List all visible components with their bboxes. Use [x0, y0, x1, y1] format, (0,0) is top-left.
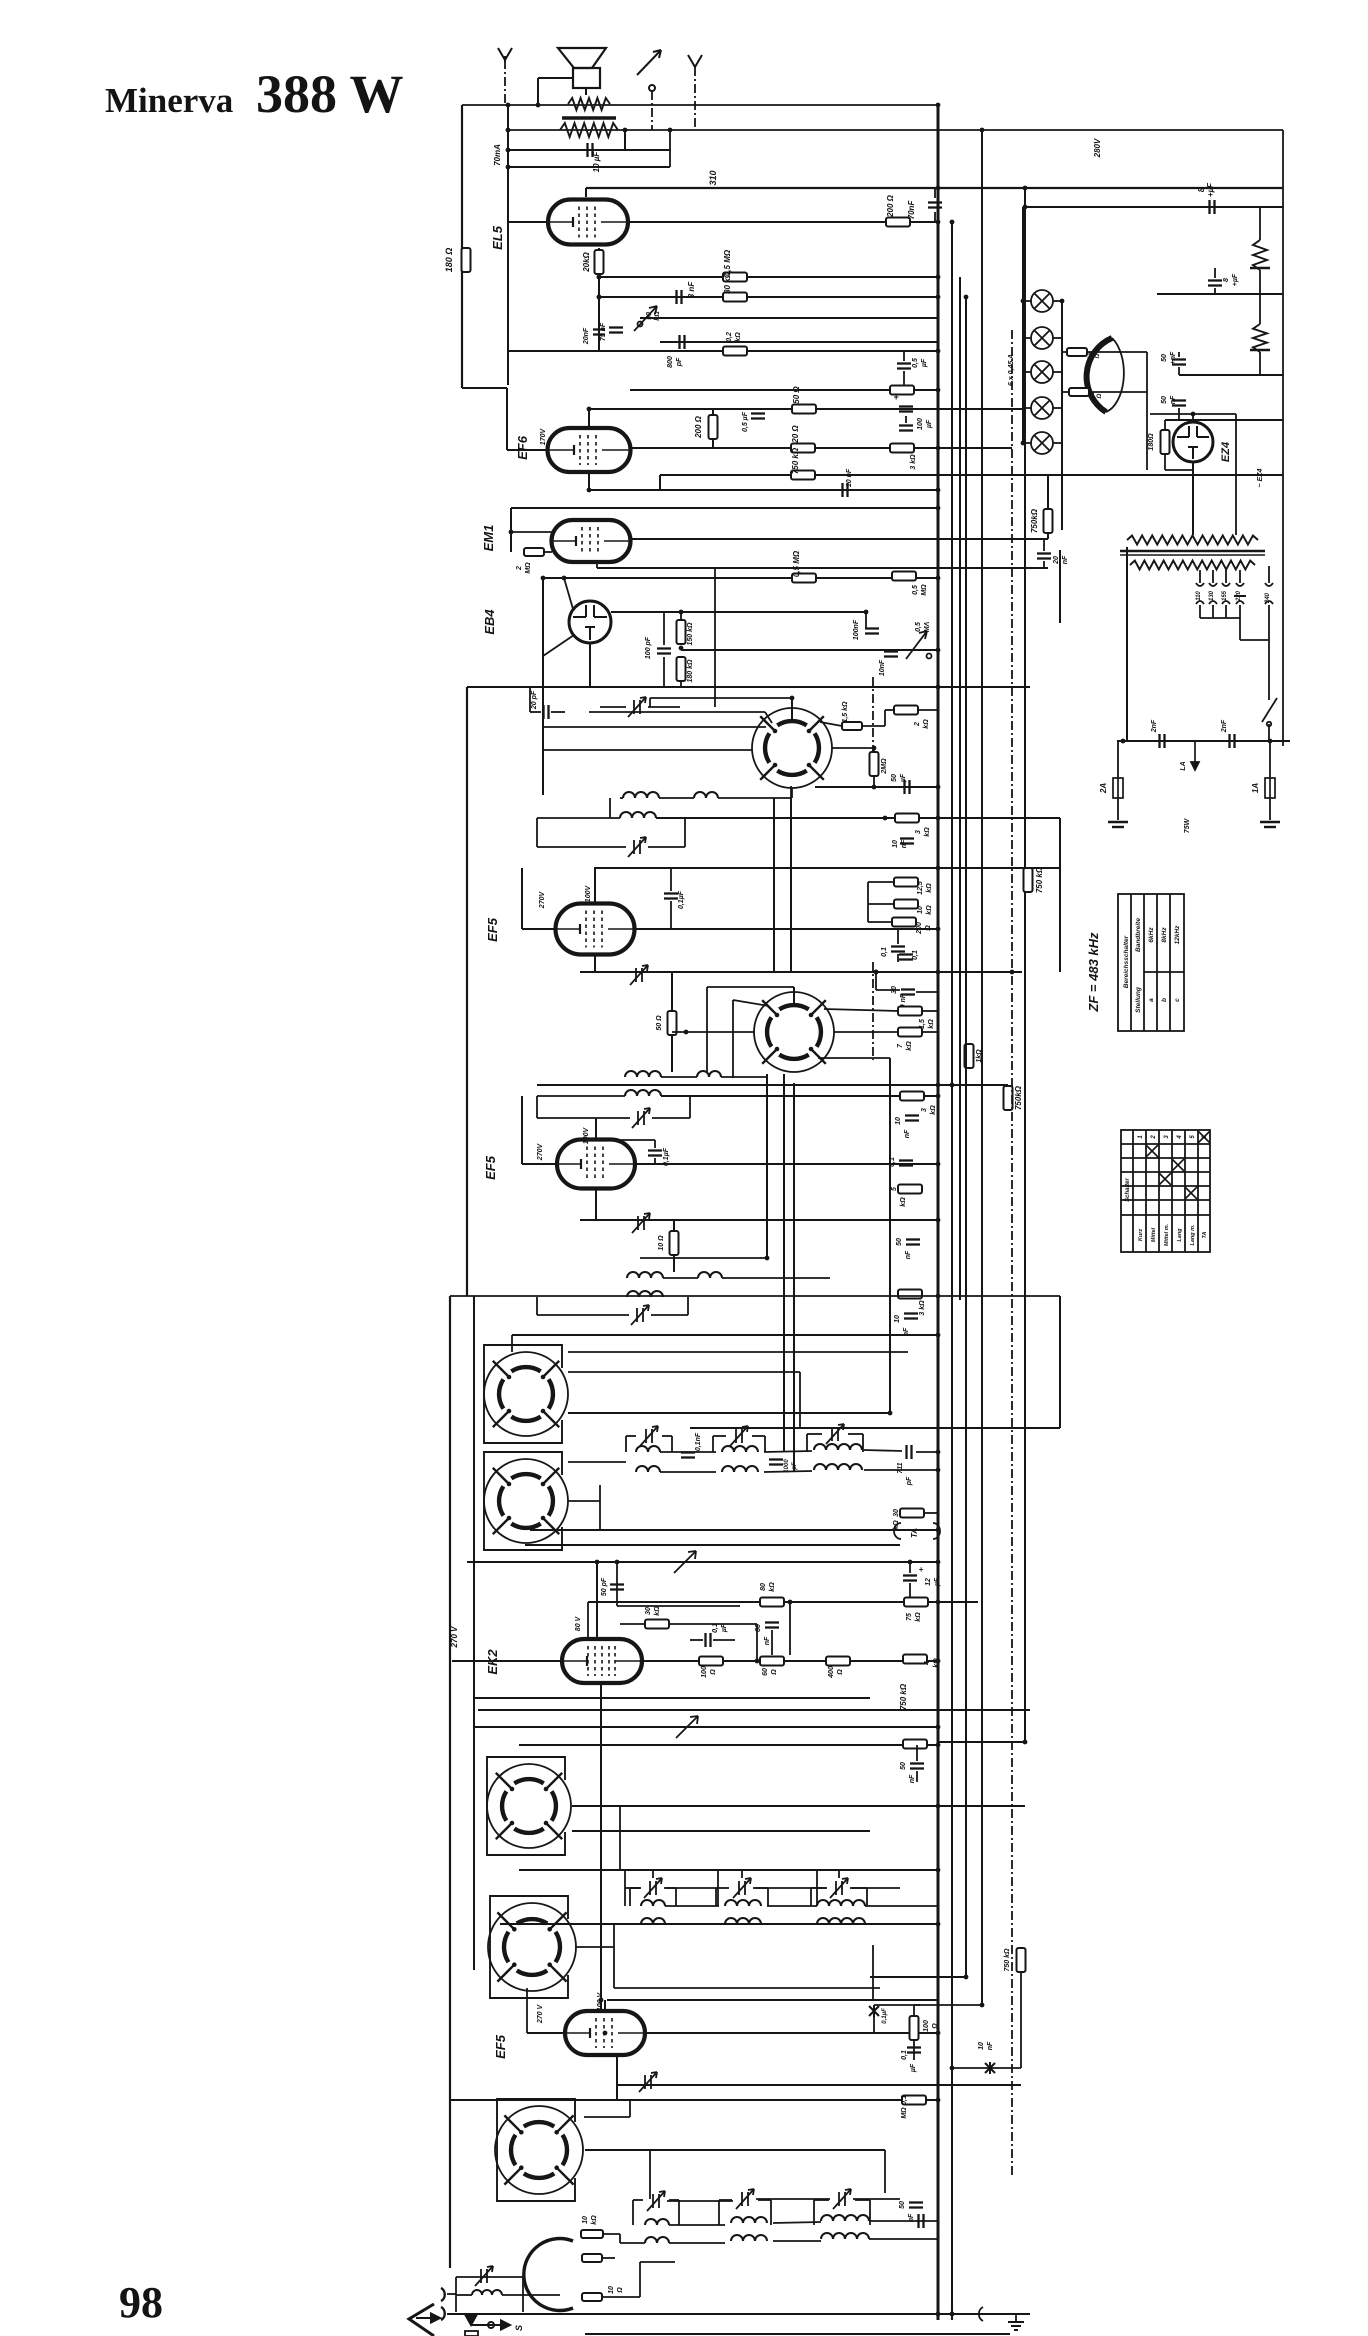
wire PS right border — [1282, 130, 1284, 746]
wire speaker bottom — [585, 88, 587, 95]
coil — [620, 812, 656, 818]
resistor 5 kOhm — [898, 1185, 922, 1194]
coil — [817, 1900, 865, 1906]
svg-text:LA: LA — [1180, 761, 1187, 770]
wire trimmer loop — [712, 1436, 714, 1452]
wire — [1129, 566, 1131, 620]
wire — [572, 1805, 1025, 1807]
svg-text:150 kΩ: 150 kΩ — [687, 622, 694, 646]
TA pickup jack — [894, 1523, 940, 1539]
wire — [718, 797, 791, 799]
wire — [1023, 442, 1031, 444]
wire — [707, 986, 794, 988]
wire — [594, 955, 596, 972]
wire — [502, 2294, 523, 2296]
wire — [873, 2005, 875, 2011]
wire — [660, 341, 938, 343]
wire — [617, 1605, 740, 1607]
wire — [716, 1887, 729, 1889]
wire — [1053, 407, 1062, 409]
wire — [640, 317, 938, 319]
tuning gang section 1 — [484, 1345, 568, 1443]
wire — [602, 2296, 640, 2298]
wire — [712, 409, 714, 448]
wire — [1053, 371, 1062, 373]
wire bus 8 — [1059, 818, 1061, 972]
wire — [897, 954, 899, 962]
svg-text:100V: 100V — [585, 885, 592, 903]
wire — [652, 1870, 654, 1878]
wire — [519, 1744, 938, 1746]
svg-text:nF: nF — [764, 1636, 771, 1645]
svg-text:50 Ω: 50 Ω — [656, 1015, 663, 1031]
wire — [500, 1923, 938, 1925]
table: Schalter contacts — [1121, 1130, 1210, 1252]
wire — [773, 2222, 821, 2223]
wire — [511, 1335, 513, 1352]
resistor — [1067, 348, 1087, 356]
wire trimmer loop — [770, 2200, 772, 2225]
wire — [508, 149, 670, 151]
wire border to EF6 — [462, 387, 507, 389]
wire — [799, 1372, 801, 1428]
svg-text:Lang m.: Lang m. — [1190, 1224, 1196, 1246]
coil — [623, 792, 659, 798]
svg-text:10 µF: 10 µF — [592, 151, 601, 173]
output transformer secondary winding — [560, 123, 618, 137]
wire trimmer loop — [806, 1434, 808, 1452]
svg-text:MΩ: MΩ — [921, 584, 928, 596]
wire — [1043, 539, 1045, 551]
capacitor 20pF — [544, 705, 549, 719]
svg-text:2nF: 2nF — [1221, 719, 1228, 733]
resistor 750 kOhm — [1004, 1086, 1013, 1110]
wire — [1240, 639, 1269, 641]
wire — [596, 1139, 655, 1141]
wire — [773, 798, 775, 972]
wire (dash-dot drop) — [504, 60, 506, 105]
wire — [722, 1277, 830, 1279]
resistor 0.1 MOhm — [902, 2096, 926, 2105]
svg-text:+nF: +nF — [1170, 351, 1177, 364]
resistor 7 kOhm — [898, 1028, 922, 1037]
resistor 150 kOhm — [677, 620, 686, 644]
wire shield box top — [450, 1295, 1060, 1297]
coil — [722, 1446, 758, 1452]
svg-text:pF: pF — [792, 1462, 798, 1471]
svg-text:0,5: 0,5 — [912, 585, 919, 595]
wire — [506, 388, 508, 450]
wire — [600, 1683, 602, 2012]
capacitor 10nF — [884, 652, 898, 657]
resistor 200 Ohm — [892, 918, 916, 927]
resistor 750 kOhm — [791, 471, 815, 480]
wire — [649, 698, 651, 707]
switch contact — [637, 50, 661, 91]
wire — [474, 1726, 938, 1728]
wire — [916, 1771, 918, 1782]
wire — [789, 1602, 791, 1655]
wire left border mid — [466, 687, 468, 1296]
svg-text:TA: TA — [1202, 1232, 1208, 1239]
svg-text:270 V: 270 V — [450, 1626, 459, 1649]
wire — [536, 818, 538, 847]
resistor 180 Ohm — [1161, 430, 1170, 454]
wire — [589, 711, 765, 713]
wire — [689, 1624, 691, 1640]
wire — [1269, 741, 1271, 778]
wire — [879, 1924, 881, 1988]
trimmer capacitor — [628, 697, 646, 717]
resistor 750 kOhm — [1024, 868, 1033, 892]
wire — [596, 1562, 598, 1639]
capacitor 800pF — [680, 335, 685, 349]
resistor 30 kOhm — [645, 1620, 669, 1629]
svg-text:Ω: Ω — [710, 1669, 717, 1676]
svg-text:0,1: 0,1 — [889, 1157, 896, 1167]
capacitor 0.5uF — [897, 364, 911, 369]
resistor 100 Ohm — [699, 1657, 723, 1666]
wire — [681, 649, 938, 651]
svg-text:nF: nF — [905, 1250, 912, 1259]
coil — [821, 2215, 869, 2221]
capacitor 10uF — [588, 143, 593, 157]
aerial arrow 2 — [688, 55, 702, 67]
svg-text:pF: pF — [676, 357, 683, 367]
wire — [1020, 1742, 1022, 1948]
svg-text:200 Ω: 200 Ω — [694, 415, 703, 439]
wire — [875, 972, 877, 990]
wire grid — [527, 2032, 565, 2034]
wire (dash-dot gang link) — [872, 677, 874, 775]
svg-text:20 pF: 20 pF — [531, 690, 538, 710]
wire — [864, 1469, 938, 1471]
wire — [599, 296, 938, 298]
wire anode — [635, 1163, 938, 1165]
wire — [652, 1117, 690, 1119]
wire — [643, 1660, 938, 1662]
wire — [665, 1905, 719, 1907]
svg-text:EF6: EF6 — [515, 435, 530, 460]
resistor 2 MOhm — [870, 752, 879, 776]
wire — [588, 1601, 740, 1603]
svg-text:0,2: 0,2 — [726, 332, 733, 342]
wire — [873, 776, 875, 787]
wire — [580, 971, 1022, 973]
antenna terminal — [409, 2304, 434, 2336]
svg-text:10 Ω: 10 Ω — [658, 1235, 665, 1251]
svg-text:Bereichsschalter: Bereichsschalter — [1123, 935, 1130, 988]
wire 310 rail — [586, 187, 1283, 189]
dial lamp 4 — [1031, 397, 1053, 419]
capacitor 10nF (star) — [985, 2062, 995, 2074]
trimmer capacitor — [830, 1878, 848, 1898]
wire bus 5 — [981, 130, 983, 2005]
wire trimmer loop — [715, 1888, 717, 1906]
resistor 80 kOhm — [760, 1598, 784, 1607]
wire — [673, 1220, 675, 1272]
svg-text:MΩ: MΩ — [901, 2107, 908, 2119]
trimmer capacitor — [631, 1305, 649, 1325]
wire trimmer loop — [869, 2200, 871, 2225]
wire — [604, 2000, 606, 2011]
wire — [862, 725, 885, 727]
wire — [1225, 605, 1227, 618]
capacitor 3nF — [677, 290, 682, 304]
wire — [1200, 617, 1240, 619]
wire — [1059, 550, 1061, 623]
wire — [1025, 206, 1283, 208]
wire — [589, 643, 591, 687]
wire — [633, 2199, 643, 2201]
wire — [595, 1118, 597, 1140]
wire — [1192, 462, 1194, 535]
svg-text:Ω: Ω — [925, 925, 932, 932]
coil — [814, 1464, 862, 1470]
wire — [790, 786, 792, 798]
svg-text:50: 50 — [1161, 396, 1168, 404]
svg-text:10: 10 — [978, 2042, 985, 2050]
wire — [838, 1870, 840, 1878]
wire — [870, 1976, 966, 1978]
svg-text:Minerva: Minerva — [105, 81, 233, 120]
wire — [663, 657, 665, 687]
wire — [669, 2224, 725, 2226]
coil — [814, 1444, 862, 1450]
svg-text:5: 5 — [1190, 1135, 1196, 1139]
svg-text:130: 130 — [1209, 590, 1215, 601]
wire — [832, 747, 874, 749]
capacitor 10nF — [900, 839, 914, 844]
wire — [659, 475, 661, 490]
wire cathode EL5 — [598, 248, 600, 277]
wire — [616, 2055, 618, 2100]
resistor 0.2 kOhm — [723, 347, 747, 356]
wire — [447, 2313, 585, 2315]
wire — [721, 1076, 767, 1078]
wire — [648, 846, 685, 848]
svg-text:0,1: 0,1 — [881, 947, 888, 957]
wire — [542, 578, 544, 795]
wire — [616, 1562, 618, 1606]
coil — [694, 792, 718, 798]
wire — [916, 991, 938, 993]
svg-text:0,1: 0,1 — [901, 2095, 908, 2105]
wire — [602, 2257, 615, 2259]
wire — [868, 903, 894, 905]
svg-text:nF: nF — [908, 2213, 915, 2222]
wire — [648, 706, 680, 708]
capacitor 2nF — [1230, 734, 1235, 748]
capacitor 711pF — [907, 1445, 912, 1459]
svg-text:50: 50 — [896, 1238, 903, 1246]
svg-text:1: 1 — [1138, 1135, 1144, 1139]
wire — [1239, 605, 1241, 618]
dial lamp 3 — [1031, 361, 1053, 383]
svg-text:10: 10 — [582, 2216, 589, 2224]
resistor 50 Ohm — [668, 1011, 677, 1035]
svg-text:750 kΩ: 750 kΩ — [1004, 1948, 1011, 1972]
svg-text:100nF: 100nF — [853, 619, 860, 640]
wire — [660, 1471, 716, 1473]
wire trimmer loop — [810, 1888, 812, 1906]
trimmer capacitor — [640, 1426, 658, 1446]
capacitor 10nF — [843, 483, 848, 497]
wire — [666, 1887, 676, 1889]
wire — [669, 1623, 757, 1625]
trimmer capacitor — [632, 1108, 650, 1128]
wire — [599, 276, 938, 278]
svg-text:200: 200 — [916, 922, 923, 935]
svg-text:180Ω: 180Ω — [1148, 433, 1155, 451]
wire — [537, 1095, 625, 1097]
capacitor 1000pF — [769, 1460, 783, 1465]
wire — [1146, 352, 1148, 470]
wire — [916, 1451, 938, 1453]
wire — [889, 1058, 891, 1413]
wire — [680, 612, 682, 621]
wire — [670, 901, 672, 929]
wire — [589, 489, 938, 491]
resistor 3 kOhm — [890, 444, 914, 453]
trimmer capacitor — [733, 1878, 751, 1898]
wire — [543, 635, 574, 656]
svg-text:180 Ω: 180 Ω — [444, 248, 454, 273]
wire — [640, 1257, 767, 1259]
wire — [719, 2199, 732, 2201]
wire — [507, 351, 509, 385]
svg-text:8: 8 — [1197, 187, 1206, 192]
svg-text:kΩ: kΩ — [591, 2215, 598, 2225]
capacitor 2nF — [1160, 734, 1165, 748]
wire screen rail — [660, 474, 1283, 476]
wire — [807, 1433, 822, 1435]
svg-text:kΩ: kΩ — [928, 1019, 935, 1029]
capacitor 50nF — [906, 1240, 920, 1245]
wire — [525, 1544, 900, 1546]
capacitor 0.5uF — [751, 414, 765, 419]
svg-text:100: 100 — [923, 2020, 930, 2032]
svg-text:kΩ: kΩ — [923, 719, 930, 729]
wire — [714, 568, 716, 707]
wire bottom rail 2 — [585, 2333, 1010, 2335]
antenna terminal arrow — [498, 48, 512, 62]
wire — [1062, 391, 1069, 393]
svg-text:750kΩ: 750kΩ — [1014, 1085, 1023, 1110]
resistor 60 Ohm — [760, 1657, 784, 1666]
wire — [922, 1031, 938, 1033]
wire — [1178, 352, 1180, 357]
resistor — [890, 386, 914, 395]
mains switch — [1262, 698, 1277, 726]
svg-text:10nF: 10nF — [879, 659, 886, 676]
wire — [1199, 605, 1201, 618]
svg-text:3: 3 — [1164, 1135, 1170, 1139]
fuse 1A — [1265, 778, 1275, 798]
wire — [511, 507, 938, 509]
wire — [670, 868, 672, 891]
output transformer primary winding — [568, 98, 610, 110]
wire — [758, 2199, 771, 2201]
capacitor 0.1nF — [681, 1453, 695, 1458]
capacitor 20nF — [593, 330, 605, 335]
trimmer capacitor — [639, 2072, 657, 2092]
wire — [620, 1623, 645, 1625]
wire — [564, 578, 573, 609]
wire trimmer loop — [813, 2200, 815, 2225]
wire anode EF6 — [630, 447, 1012, 449]
capacitor 75nF — [609, 328, 623, 333]
wire (dash-dot gang link) — [872, 962, 874, 1060]
wire — [568, 1461, 626, 1463]
potentiometer 50 kOhm — [634, 306, 657, 331]
svg-text:800: 800 — [667, 356, 674, 368]
svg-text:6 x 0,45 A: 6 x 0,45 A — [1008, 354, 1015, 386]
wire — [521, 868, 523, 929]
svg-text:µF: µF — [910, 2063, 917, 2073]
svg-text:2: 2 — [516, 566, 523, 571]
wire — [1117, 798, 1119, 820]
svg-text:98: 98 — [119, 2278, 163, 2327]
svg-text:+: + — [919, 1565, 924, 1574]
svg-text:2: 2 — [1151, 1135, 1157, 1140]
tuning gang section 4 — [488, 1896, 576, 1998]
wire grid EL5 — [508, 221, 547, 223]
svg-text:240: 240 — [1265, 592, 1271, 604]
ground bottom right — [979, 2307, 983, 2321]
tube EB4 — [569, 601, 611, 643]
wire — [793, 1083, 795, 1472]
svg-text:270V: 270V — [539, 891, 546, 910]
wire — [1157, 293, 1283, 295]
wire — [1178, 367, 1180, 375]
wire — [864, 1450, 902, 1451]
tube EF5 — [557, 1140, 635, 1189]
switch arrow — [674, 1551, 696, 1573]
wire — [791, 788, 793, 798]
svg-text:kΩ: kΩ — [924, 827, 931, 837]
svg-text:kΩ: kΩ — [654, 311, 661, 321]
wire — [873, 748, 875, 752]
tube EF6 — [548, 428, 631, 472]
coil — [698, 1272, 722, 1278]
wire — [467, 1561, 938, 1563]
svg-text:3 kΩ: 3 kΩ — [919, 1300, 926, 1316]
wire trimmer loop — [625, 1436, 627, 1452]
coil — [731, 2235, 767, 2241]
wire — [1150, 413, 1236, 415]
svg-text:100: 100 — [917, 418, 924, 430]
wire tap — [1225, 570, 1227, 583]
resistor 200 Ohm — [886, 218, 910, 227]
trimmer capacitor — [630, 965, 648, 985]
resistor 10 kOhm — [894, 900, 918, 909]
wire (dash-dot) — [694, 67, 696, 130]
wire — [1020, 1969, 1022, 2068]
svg-text:750kΩ: 750kΩ — [1030, 508, 1039, 533]
wire — [752, 1435, 765, 1437]
trimmer capacitor — [632, 1213, 650, 1233]
resistor 12.5 kOhm — [894, 878, 918, 887]
wire — [1015, 2314, 1017, 2322]
wire — [1165, 419, 1283, 421]
transformer primary — [1127, 536, 1258, 545]
svg-text:50: 50 — [899, 2201, 906, 2209]
wire — [630, 389, 938, 391]
resistor 75 kOhm — [904, 1598, 928, 1607]
wire — [1053, 442, 1062, 444]
wire — [764, 1451, 812, 1452]
